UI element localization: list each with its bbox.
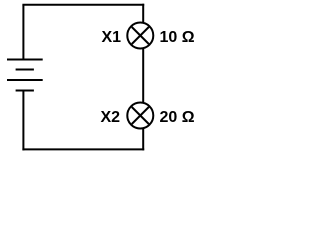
wire: left vertical upper (top-left corner to battery top plate) — [22, 5, 24, 60]
battery (two-cell symbol) — [7, 60, 43, 91]
wire: right vertical middle (lamp X1 to lamp X2) — [142, 49, 144, 102]
wire: top horizontal (battery to lamp X1) — [22, 4, 144, 6]
svg-text:20 Ω: 20 Ω — [160, 109, 195, 126]
svg-text:X1: X1 — [102, 29, 122, 46]
wire: bottom horizontal (lamp X2 back to battery) — [22, 148, 144, 150]
lamp X1 — [127, 23, 153, 49]
wire: right vertical upper (top corner to lamp X1) — [142, 4, 144, 22]
svg-text:10 Ω: 10 Ω — [160, 29, 195, 46]
wire: right vertical lower (lamp X2 to bottom corner) — [142, 129, 144, 151]
svg-text:X2: X2 — [101, 109, 121, 126]
wire: left vertical lower (battery bottom plate to bottom-left corner) — [22, 91, 24, 151]
lamp X2 — [127, 103, 153, 129]
